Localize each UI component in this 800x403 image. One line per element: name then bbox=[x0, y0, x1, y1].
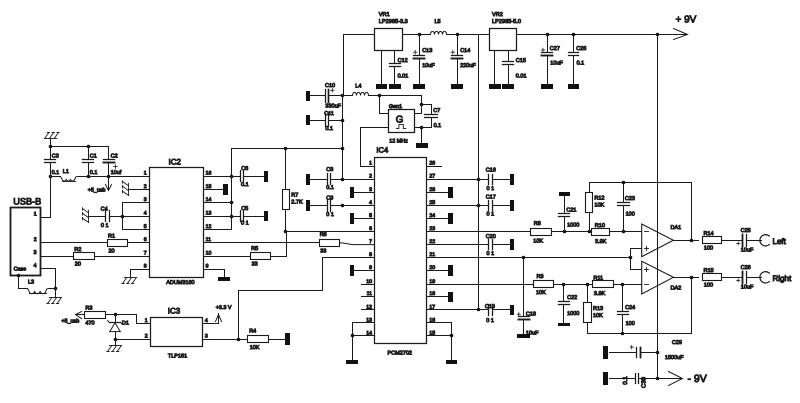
svg-text:LP2985-5.0: LP2985-5.0 bbox=[492, 19, 521, 25]
svg-text:C13: C13 bbox=[422, 48, 432, 54]
svg-text:R9: R9 bbox=[537, 274, 544, 280]
wire R14 to C25 bbox=[722, 240, 743, 242]
capacitor C11 bbox=[311, 120, 326, 122]
node C11 junction bbox=[341, 119, 345, 123]
ground bar C28 bbox=[568, 84, 579, 89]
-9V supply arrow bbox=[658, 378, 682, 380]
ground bar IC4 pin5 bbox=[350, 213, 354, 224]
ground bar C22 bbox=[558, 323, 570, 326]
capacitor C9 bbox=[311, 205, 328, 207]
svg-text:Left: Left bbox=[773, 237, 787, 246]
wire shield ground rail bbox=[51, 146, 109, 148]
svg-text:3: 3 bbox=[369, 187, 372, 193]
wire C26 to Right jack bbox=[747, 277, 762, 279]
svg-text:C7: C7 bbox=[433, 108, 440, 114]
ground bar C30 bbox=[603, 372, 608, 385]
resistor R2 bbox=[74, 253, 95, 260]
wire R8 to R10 bbox=[552, 231, 592, 233]
capacitor C2 polarized bbox=[108, 147, 110, 160]
wire bias to IC4 pin8 bbox=[239, 258, 375, 340]
op-amp DA2 bbox=[642, 261, 674, 294]
capacitor C1 bbox=[88, 147, 90, 160]
connector Left output jack bbox=[760, 235, 769, 246]
svg-text:470: 470 bbox=[85, 320, 94, 326]
node DA2 output junction bbox=[690, 276, 694, 280]
wire IC4 pin10 stub bbox=[362, 284, 375, 286]
wire C25 to Left jack bbox=[747, 240, 762, 242]
ground bar IC4 pin24 bbox=[448, 213, 453, 224]
svg-text:C8: C8 bbox=[326, 167, 333, 173]
resistor R11 bbox=[593, 281, 614, 288]
svg-text:10K: 10K bbox=[593, 313, 603, 319]
svg-text:R5: R5 bbox=[251, 246, 258, 252]
ground bar C8 bbox=[306, 174, 310, 185]
wire IC2 pin16 row bbox=[204, 176, 241, 178]
svg-text:3: 3 bbox=[205, 334, 208, 340]
ground bar C13 bbox=[413, 84, 425, 89]
resistor R10 bbox=[592, 229, 610, 236]
node DA1 output junction bbox=[690, 239, 694, 243]
node R13 top junction bbox=[586, 283, 590, 287]
svg-text:0 1: 0 1 bbox=[486, 318, 494, 324]
node R12 bottom junction bbox=[588, 230, 592, 234]
capacitor C15 bbox=[503, 61, 514, 63]
IC U2 ADUM3160 body bbox=[150, 168, 204, 278]
inductor L5 bbox=[431, 31, 447, 34]
node C8 row junction bbox=[341, 178, 345, 182]
node C29 junction bbox=[656, 351, 660, 355]
svg-text:L4: L4 bbox=[355, 84, 361, 90]
capacitor C16 bbox=[488, 175, 490, 185]
wire R3 to D1 node bbox=[106, 314, 116, 316]
svg-text:ADUM3160: ADUM3160 bbox=[166, 280, 194, 286]
capacitor C27 bbox=[547, 35, 549, 53]
capacitor C21 bbox=[564, 196, 566, 214]
svg-text:4: 4 bbox=[144, 211, 147, 217]
wire IC2 pin14 row bbox=[204, 202, 232, 204]
svg-text:R4: R4 bbox=[249, 328, 256, 334]
ground earth at D1 bbox=[107, 346, 122, 352]
wire Case pin down bbox=[18, 276, 20, 289]
node IC4 pin14 junction bbox=[351, 334, 355, 338]
capacitor C13 bbox=[419, 35, 421, 56]
svg-text:C28: C28 bbox=[576, 46, 586, 52]
node VBUS node A bbox=[49, 175, 53, 179]
wire 3.3V row IC2 to IC4 bbox=[232, 149, 343, 177]
ground bar C19 bbox=[510, 305, 514, 315]
svg-text:4: 4 bbox=[205, 318, 208, 324]
ground bar IC4 left bottom bbox=[346, 360, 358, 364]
wire Gen1 output to IC4 pin1 bbox=[361, 128, 389, 167]
svg-text:0.1: 0.1 bbox=[325, 126, 333, 132]
svg-text:TLP181: TLP181 bbox=[168, 354, 187, 360]
capacitor C7 bbox=[422, 105, 432, 115]
svg-text:26: 26 bbox=[429, 187, 435, 193]
ground bar C21 bbox=[559, 192, 570, 196]
+5_usb down arrow bbox=[108, 177, 110, 190]
node V- branch junction on +9V rail bbox=[656, 33, 660, 37]
svg-text:0.01: 0.01 bbox=[516, 74, 527, 80]
wire VR2 right leg to C15 bbox=[508, 51, 510, 62]
capacitor C30 bbox=[610, 378, 636, 380]
wire IC2 pin11 to R6 bbox=[204, 242, 320, 244]
ground bar IC4 pin20 bbox=[448, 265, 453, 276]
wire IC4 pin22 row bbox=[427, 244, 489, 246]
svg-text:19: 19 bbox=[429, 279, 435, 285]
wire R1 to IC2 pin6 bbox=[128, 242, 150, 244]
svg-text:C24: C24 bbox=[625, 305, 635, 311]
wire IC4 pin18 to bar bbox=[427, 296, 449, 298]
svg-text:0.1: 0.1 bbox=[326, 185, 334, 191]
node C2 bottom +5 node bbox=[107, 175, 111, 179]
wire IC4 pin5 to bar bbox=[355, 218, 375, 220]
node R7 top junction bbox=[284, 147, 288, 151]
svg-text:C15: C15 bbox=[516, 58, 526, 64]
wire IC2 pin13 row bbox=[204, 216, 241, 218]
node IC2 pin16 junction bbox=[230, 175, 234, 179]
svg-text:IC3: IC3 bbox=[168, 307, 181, 316]
node Gen1 supply tap bbox=[378, 94, 382, 98]
wire IC2 pin2 to ground bbox=[129, 189, 150, 191]
svg-text:IC2: IC2 bbox=[169, 158, 182, 167]
svg-text:C12: C12 bbox=[398, 58, 408, 64]
node Case pin bbox=[17, 274, 21, 278]
resistor R14 bbox=[703, 237, 722, 244]
svg-text:R15: R15 bbox=[704, 268, 714, 274]
wire R11 to DA2 inverting input bbox=[614, 284, 642, 286]
svg-text:4: 4 bbox=[369, 200, 372, 206]
svg-text:0.1: 0.1 bbox=[52, 170, 60, 176]
svg-text:+3.3 V: +3.3 V bbox=[216, 305, 232, 311]
wire IC4 pin23 row to R8 bbox=[427, 231, 531, 233]
ground bar C5 bbox=[264, 211, 268, 221]
wire R7 junction to IC4 pin6 bbox=[286, 231, 375, 233]
diode D1 zener bbox=[115, 315, 117, 323]
svg-text:C21: C21 bbox=[566, 207, 576, 213]
wire bias link to op-amp + inputs bbox=[630, 249, 632, 270]
wire Gen1 lower-right pin to C7 bbox=[415, 127, 432, 129]
IC U4 PCM2702 body bbox=[375, 158, 427, 344]
svg-text:L1: L1 bbox=[63, 169, 69, 175]
node R4 bias junction bbox=[237, 338, 241, 342]
svg-text:C6: C6 bbox=[241, 166, 248, 172]
capacitor C29 polarized bbox=[610, 352, 637, 354]
svg-text:20: 20 bbox=[109, 248, 115, 254]
capacitor C17 bbox=[488, 201, 490, 211]
wire IC4 pins13-14 to ground bbox=[353, 323, 375, 361]
resistor R13 bbox=[587, 285, 589, 303]
svg-text:20: 20 bbox=[75, 262, 81, 268]
wire R4 to ground bar bbox=[269, 339, 286, 341]
wire R9 to R11 bbox=[554, 284, 593, 286]
resistor R3 bbox=[85, 312, 106, 319]
svg-text:IC4: IC4 bbox=[376, 146, 388, 155]
ground earth at IC2 pin8 bbox=[122, 278, 137, 284]
svg-text:C4: C4 bbox=[101, 207, 108, 213]
ground bar C12 bbox=[389, 84, 401, 89]
capacitor C12 bbox=[390, 63, 401, 65]
ground bar VR2 bbox=[489, 84, 501, 89]
svg-text:10uF: 10uF bbox=[741, 247, 754, 253]
wire IC4 pin27 row bbox=[427, 179, 489, 181]
resistor R4 bbox=[248, 336, 269, 343]
svg-text:DA1: DA1 bbox=[671, 225, 682, 231]
svg-text:10K: 10K bbox=[594, 202, 604, 208]
svg-text:0.1: 0.1 bbox=[577, 61, 585, 67]
svg-text:100: 100 bbox=[626, 321, 635, 327]
ground bar C11 bbox=[306, 115, 310, 125]
wire IC4 pin4 row bbox=[343, 205, 375, 207]
svg-text:C27: C27 bbox=[550, 46, 560, 52]
svg-text:10uF: 10uF bbox=[422, 63, 435, 69]
wire IC4 pins16-15 to ground bbox=[427, 323, 452, 361]
wire 5V vertical from top rail bbox=[478, 35, 480, 310]
svg-text:Right: Right bbox=[773, 274, 792, 283]
wire IC4 pin21 bias row bbox=[427, 257, 631, 259]
wire L4 to oscillator corner bbox=[369, 96, 422, 105]
svg-text:C25: C25 bbox=[741, 228, 751, 234]
ground earth at IC2 pin2 bbox=[123, 181, 129, 196]
wire DA2 output bbox=[674, 277, 699, 279]
resistor R8 bbox=[531, 229, 552, 236]
wire D1 node to IC3 pin2 bbox=[116, 339, 151, 341]
node C7 bottom junction bbox=[420, 126, 424, 130]
svg-text:100: 100 bbox=[704, 283, 713, 289]
svg-text:10uF: 10uF bbox=[550, 61, 563, 67]
svg-text:0.1: 0.1 bbox=[622, 376, 629, 385]
wire R6 to IC4 pin7 bbox=[340, 243, 375, 245]
node C1 top bbox=[87, 145, 91, 149]
svg-text:0 1: 0 1 bbox=[487, 186, 495, 192]
node C14 junction bbox=[456, 33, 460, 37]
capacitor C10 bbox=[311, 95, 326, 97]
svg-text:L5: L5 bbox=[435, 19, 441, 25]
svg-text:1: 1 bbox=[34, 212, 37, 218]
ground bar IC2 pin15 bbox=[223, 184, 228, 195]
ground bar C27 bbox=[541, 84, 553, 89]
svg-text:C9: C9 bbox=[326, 196, 333, 202]
svg-text:0.1: 0.1 bbox=[241, 182, 249, 188]
svg-text:1000: 1000 bbox=[567, 222, 579, 228]
svg-text:100: 100 bbox=[704, 246, 713, 252]
node bias link junction bbox=[629, 256, 633, 260]
wire IC4 pin9 to bar bbox=[355, 270, 375, 272]
resistor R1 bbox=[108, 240, 128, 247]
ground bar IC4 right bottom bbox=[446, 360, 457, 364]
capacitor C19 bbox=[488, 305, 490, 316]
wire IC2 pin9 to ground bbox=[204, 270, 225, 277]
node C28 junction bbox=[572, 33, 576, 37]
wire USB pin4 bbox=[41, 269, 56, 289]
node C10 junction bbox=[341, 94, 345, 98]
svg-text:10K: 10K bbox=[536, 290, 546, 296]
svg-text:R1: R1 bbox=[108, 234, 115, 240]
capacitor C14 bbox=[457, 35, 459, 56]
svg-text:33: 33 bbox=[320, 248, 326, 254]
node R7 bottom junction bbox=[284, 230, 288, 234]
svg-text:C29: C29 bbox=[672, 340, 682, 346]
inductor L4 bbox=[343, 95, 353, 97]
node C23 bottom junction bbox=[622, 230, 626, 234]
resistor R15 bbox=[703, 274, 722, 281]
svg-text:R10: R10 bbox=[595, 223, 605, 229]
wire VR1 ground leg bbox=[381, 51, 383, 84]
svg-text:R12: R12 bbox=[594, 195, 604, 201]
svg-text:PCM2702: PCM2702 bbox=[388, 350, 412, 356]
svg-text:0 1: 0 1 bbox=[487, 251, 495, 257]
svg-text:8: 8 bbox=[144, 264, 147, 270]
node D1 top bbox=[114, 313, 118, 317]
svg-text:5: 5 bbox=[144, 224, 147, 230]
wire USB pin3 to R2 bbox=[41, 256, 74, 258]
wire Gen1 upper-right pin bbox=[415, 105, 422, 114]
ground earth at L3 bbox=[47, 298, 62, 304]
wire IC2 pin8 to ground bbox=[131, 270, 150, 278]
wire IC4 pin19 row to R9 bbox=[427, 284, 534, 286]
svg-text:- 9V: - 9V bbox=[688, 373, 707, 385]
capacitor C24 bbox=[622, 285, 624, 312]
op-amp DA1 bbox=[642, 224, 674, 257]
svg-text:2: 2 bbox=[34, 237, 37, 243]
svg-text:C26: C26 bbox=[741, 265, 751, 271]
svg-text:2.7K: 2.7K bbox=[291, 199, 303, 205]
resistor R6 bbox=[320, 240, 340, 247]
capacitor C18 polarized bbox=[523, 258, 525, 317]
svg-text:+ 9V: + 9V bbox=[676, 14, 697, 25]
svg-text:220uF: 220uF bbox=[460, 63, 476, 69]
node -9V junction bbox=[656, 377, 660, 381]
svg-text:VR2: VR2 bbox=[492, 12, 503, 18]
svg-text:13: 13 bbox=[206, 211, 212, 217]
svg-text:C2: C2 bbox=[111, 153, 118, 159]
node IC4 pin15 junction bbox=[450, 334, 454, 338]
node C1 bottom bbox=[87, 175, 91, 179]
node C18 junction bbox=[522, 256, 526, 260]
wire USB pin2 to R1 bbox=[41, 242, 108, 244]
svg-text:33: 33 bbox=[252, 262, 258, 268]
svg-text:C11: C11 bbox=[324, 111, 334, 117]
wire IC2 pin10 to R5 bbox=[204, 256, 251, 258]
node C22 junction bbox=[562, 283, 566, 287]
svg-text:10: 10 bbox=[366, 279, 372, 285]
svg-text:25: 25 bbox=[429, 200, 435, 206]
capacitor C28 bbox=[573, 35, 575, 53]
wire C7 ground stem bbox=[421, 128, 423, 144]
voltage regulator VR2 bbox=[490, 29, 517, 51]
wire IC4 pin26 to bar bbox=[427, 192, 449, 194]
wire DA1 feedback rail bbox=[590, 183, 692, 241]
svg-text:10K: 10K bbox=[533, 239, 543, 245]
svg-text:27: 27 bbox=[429, 174, 435, 180]
svg-text:C10: C10 bbox=[325, 83, 335, 89]
node C4 junction bbox=[121, 215, 125, 219]
svg-text:L3: L3 bbox=[28, 279, 34, 285]
svg-text:R13: R13 bbox=[593, 306, 603, 312]
svg-text:6: 6 bbox=[369, 226, 372, 232]
wire to IC2 pin3 bbox=[123, 202, 150, 204]
wire IC2 pin15 to bar bbox=[204, 189, 224, 191]
svg-text:2: 2 bbox=[369, 174, 372, 180]
svg-text:C3: C3 bbox=[52, 153, 59, 159]
wire R2 to IC2 pin7 bbox=[95, 256, 150, 258]
svg-text:C16: C16 bbox=[486, 168, 496, 174]
wire IC4 pin11 stub bbox=[362, 296, 375, 298]
wire IC4 pin24 to bar bbox=[427, 218, 449, 220]
node C23 top junction bbox=[622, 181, 626, 185]
svg-text:0 1: 0 1 bbox=[487, 212, 495, 218]
wire IC4 pin17 row bbox=[427, 309, 489, 311]
svg-text:7: 7 bbox=[369, 239, 372, 245]
ground bar C16 bbox=[510, 174, 514, 185]
svg-text:3.9K: 3.9K bbox=[594, 291, 606, 297]
node IC2 pin13 junction bbox=[230, 215, 234, 219]
wire VBUS down to USB pin1 bbox=[41, 177, 51, 218]
node C7 top junction bbox=[420, 103, 424, 107]
svg-text:USB-B: USB-B bbox=[13, 197, 41, 207]
capacitor C8 bbox=[311, 179, 328, 181]
ground bar C17 bbox=[510, 200, 514, 211]
svg-text:LP2985-3.3: LP2985-3.3 bbox=[379, 19, 408, 25]
node L3 junction bbox=[54, 287, 58, 291]
svg-text:0.01: 0.01 bbox=[398, 74, 409, 80]
ground bar C14 bbox=[451, 84, 463, 89]
connector USB-B body bbox=[11, 208, 41, 276]
node C21 junction bbox=[563, 230, 567, 234]
svg-text:1: 1 bbox=[144, 171, 147, 177]
svg-text:1500uF: 1500uF bbox=[665, 355, 684, 361]
ground bar C10 bbox=[306, 91, 310, 101]
node C27 junction bbox=[546, 33, 550, 37]
ground bar C20 bbox=[510, 239, 514, 250]
wire IC4 pin12 stub bbox=[362, 309, 375, 311]
wire IC2 3.3V vertical bbox=[231, 177, 233, 230]
ground bar IC4 pin26 bbox=[448, 187, 453, 198]
svg-text:C22: C22 bbox=[567, 295, 577, 301]
wire IC4 pin3 to bar bbox=[355, 192, 375, 194]
voltage regulator VR1 bbox=[375, 29, 403, 51]
svg-text:330uF: 330uF bbox=[325, 104, 341, 110]
node IC2 pin14 junction bbox=[230, 201, 234, 205]
svg-text:R14: R14 bbox=[704, 231, 714, 237]
capacitor C6 bbox=[240, 171, 242, 182]
node 5V pin25 junction bbox=[477, 204, 481, 208]
svg-text:10: 10 bbox=[206, 250, 212, 256]
svg-text:VR1: VR1 bbox=[379, 12, 390, 18]
svg-text:R11: R11 bbox=[593, 275, 603, 281]
ground bar R4 bbox=[285, 333, 290, 345]
wire DA1 output bbox=[674, 240, 699, 242]
wire 3.3V vertical C10 to C11 to row bbox=[342, 96, 344, 180]
svg-text:Case: Case bbox=[14, 267, 27, 273]
wire R15 to C26 bbox=[722, 277, 743, 279]
ground earth top-left bbox=[45, 133, 60, 139]
capacitor C26 polarized bbox=[742, 272, 744, 284]
svg-text:C1: C1 bbox=[90, 153, 97, 159]
svg-text:0 1: 0 1 bbox=[101, 223, 109, 229]
capacitor C4 bbox=[89, 216, 106, 218]
svg-text:C14: C14 bbox=[460, 48, 470, 54]
svg-text:C17: C17 bbox=[486, 195, 496, 201]
svg-text:C19: C19 bbox=[485, 304, 495, 310]
ground bar IC4 pin9 bbox=[350, 265, 354, 276]
svg-text:R6: R6 bbox=[320, 232, 327, 238]
ground bar C18 bbox=[517, 334, 530, 338]
ground bar C6 bbox=[264, 171, 268, 182]
node C13 junction bbox=[418, 33, 422, 37]
wire D1 ground stem bbox=[115, 340, 117, 346]
svg-text:Gen1: Gen1 bbox=[389, 104, 402, 110]
ground bar IC2 pin9 bbox=[218, 277, 230, 281]
